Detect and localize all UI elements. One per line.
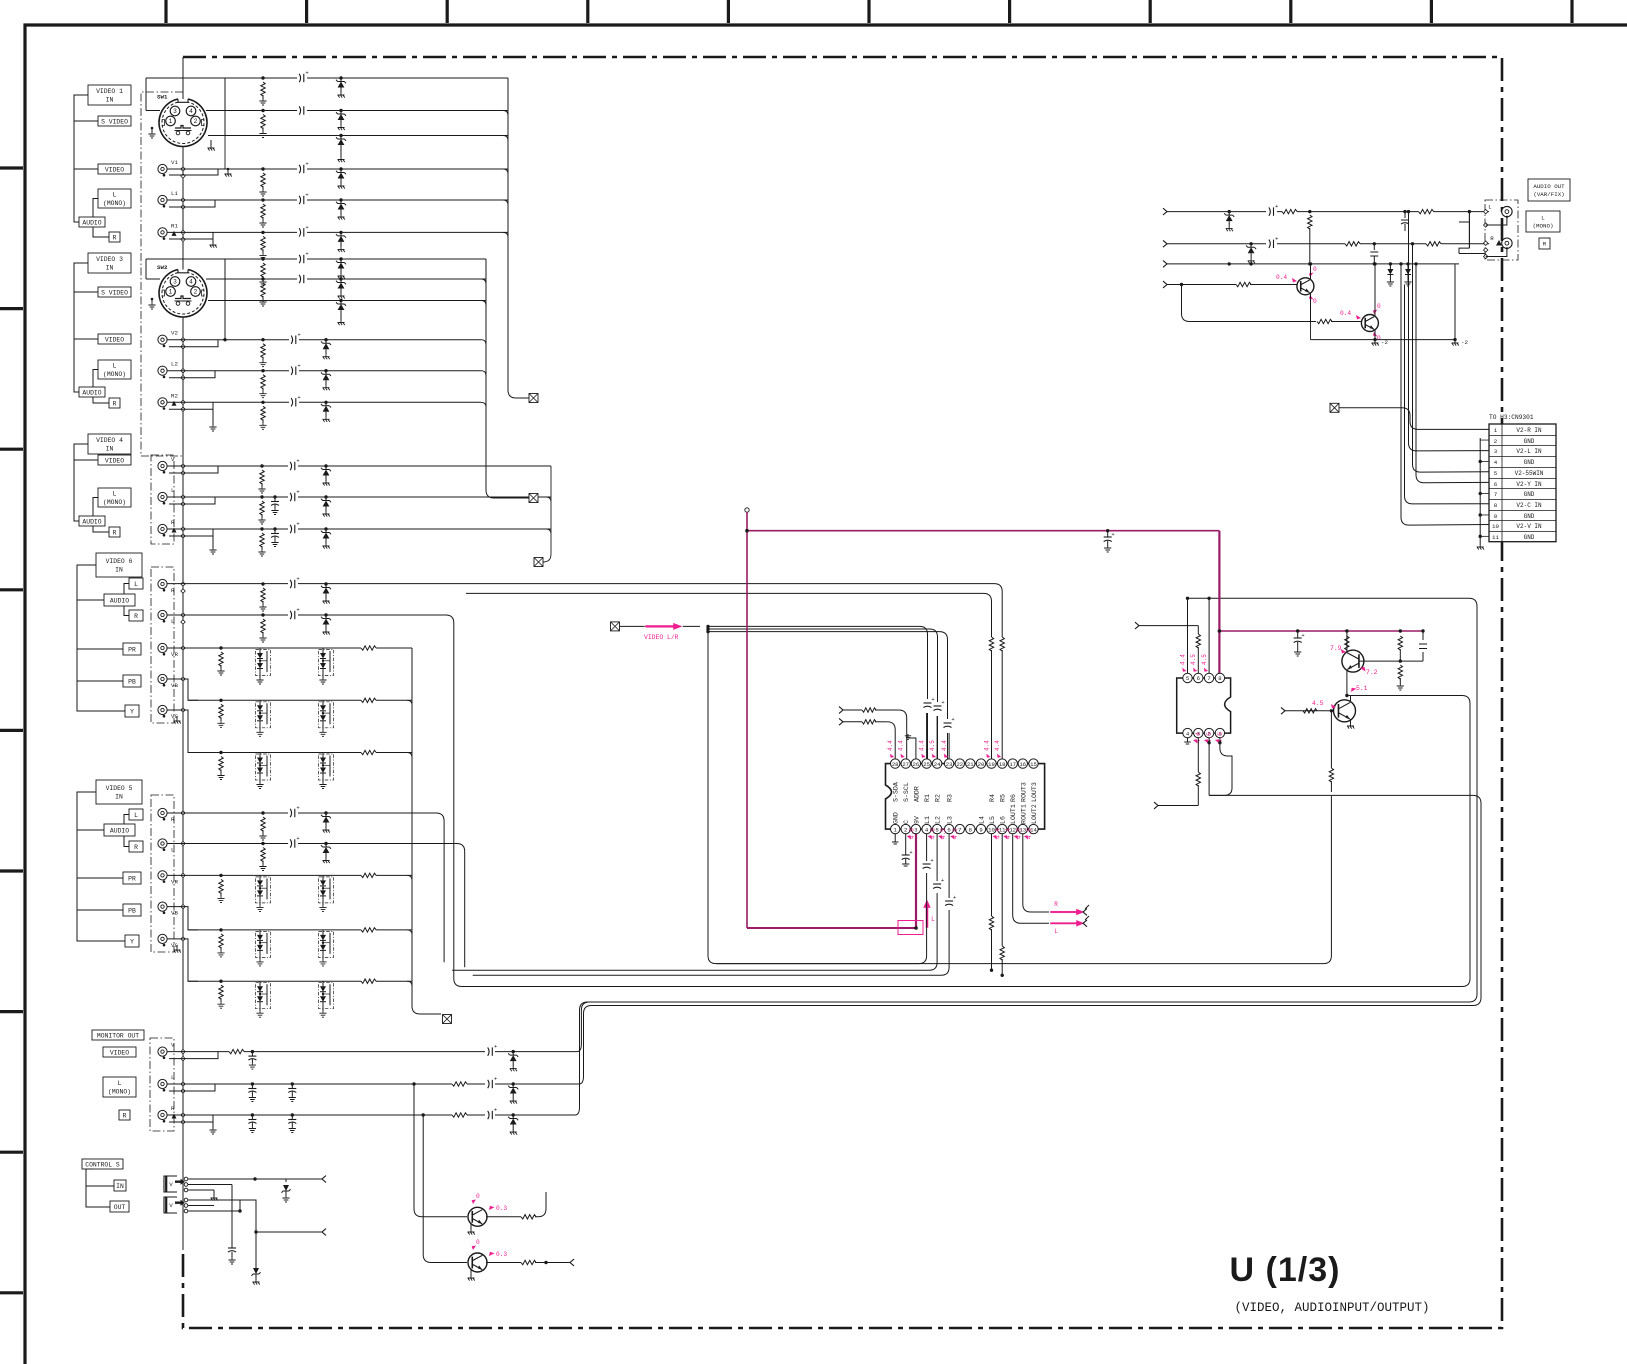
IC U1 pin 14 <box>1029 824 1038 833</box>
svg-text:R5: R5 <box>1000 794 1007 802</box>
wire L2 jack link <box>169 371 215 378</box>
label box R (VIDEO 6) <box>129 610 143 621</box>
table pin 6 V2-Y IN <box>1489 478 1556 480</box>
coupling capacitor <box>297 196 307 205</box>
gnd bus pad <box>181 205 185 209</box>
svg-text:+: + <box>296 521 299 528</box>
svg-text:IN: IN <box>116 1183 124 1190</box>
wire R2 jack link <box>169 402 213 409</box>
label box AUDIO (VIDEO 4) <box>79 516 105 526</box>
svg-text:LOUT3: LOUT3 <box>1031 782 1038 802</box>
wire QC1 out <box>486 1216 521 1218</box>
bus bundle component rows <box>412 648 441 1014</box>
shunt resistor SW2 r1 <box>261 257 264 260</box>
flag 0.4 QA1 <box>1292 278 1297 282</box>
svg-text:3: 3 <box>173 279 177 286</box>
cap R mon 2 <box>291 1113 294 1116</box>
svg-text:4.5: 4.5 <box>930 828 937 839</box>
IC U2 pin 5 <box>1183 673 1192 682</box>
magenta flags IC top <box>890 754 894 758</box>
flag 7.9 <box>1341 649 1346 653</box>
gnd -2 right <box>1453 338 1456 341</box>
wire row <box>167 401 481 403</box>
gnd VG5 <box>176 945 178 948</box>
shunt resistor <box>261 401 264 404</box>
svg-text:VIDEO: VIDEO <box>105 336 124 343</box>
coupling capacitor <box>288 525 298 534</box>
svg-text:+: + <box>296 489 299 496</box>
svg-text:+: + <box>296 576 299 583</box>
gnd VG6 <box>176 716 178 719</box>
wire row <box>167 647 412 649</box>
shunt resistor <box>261 198 264 201</box>
svg-text:4.5: 4.5 <box>909 828 916 839</box>
IC U1 pin 23 <box>944 759 953 768</box>
label box MONITOR OUT <box>92 1030 144 1040</box>
wire pin6 down <box>473 834 949 976</box>
wire trunk CONTROL S labels <box>86 1169 114 1207</box>
coupling cap L mon <box>485 1079 495 1088</box>
junction <box>223 338 226 341</box>
wire cap feed 2 <box>708 629 938 763</box>
wire row R (VIDEO 5) <box>167 813 444 962</box>
IC U1 pin 5 <box>932 824 941 833</box>
junction <box>412 1082 415 1085</box>
shunt resistor <box>219 928 222 931</box>
coupling capacitor <box>289 398 299 407</box>
wire pin12 to R arrow <box>1013 834 1049 924</box>
svg-text:22: 22 <box>956 761 963 768</box>
IC U1 pin 4 <box>922 824 931 833</box>
svg-text:MONITOR OUT: MONITOR OUT <box>97 1032 139 1039</box>
series resistor <box>361 871 376 879</box>
diode pair 2 <box>1407 264 1409 269</box>
svg-text:+: + <box>494 1107 497 1114</box>
svg-text:VIDEO: VIDEO <box>105 457 124 464</box>
svg-text:V2-Y IN: V2-Y IN <box>1516 481 1542 488</box>
svg-text:VIDEO 1: VIDEO 1 <box>96 88 123 95</box>
label box PB (VIDEO 6) <box>123 675 141 687</box>
wire V mon up <box>577 598 1477 1051</box>
svg-text:+: + <box>296 607 299 614</box>
gnd group2 <box>212 409 214 425</box>
wire audio row4 <box>1167 284 1243 286</box>
svg-text:27: 27 <box>902 761 909 768</box>
bus bundle group1 <box>508 78 529 398</box>
IC U1 pin 1 <box>891 824 900 833</box>
wire QC1 up <box>535 1192 546 1217</box>
label box R (AUDIO OUT) <box>1539 238 1550 249</box>
gnd bus pad <box>181 400 185 404</box>
wire audio R row <box>1167 243 1489 245</box>
svg-text:3: 3 <box>1494 448 1498 455</box>
gnd bus pad <box>181 582 185 586</box>
wire row L (VIDEO 5) <box>167 844 465 968</box>
magenta thick vertical to IC8 <box>1218 531 1220 676</box>
dual diode pack 1 <box>256 931 271 957</box>
label box IN (CONTROL S) <box>114 1180 126 1191</box>
svg-text:-2: -2 <box>1381 339 1388 346</box>
series resistor <box>361 696 376 704</box>
svg-text:+: + <box>494 1043 497 1050</box>
res col 1400 lower <box>1398 665 1402 679</box>
svg-text:L: L <box>1488 204 1492 211</box>
svg-text:7: 7 <box>1207 675 1210 682</box>
wire QA2 base <box>1182 285 1317 322</box>
svg-text:VIDEO 4: VIDEO 4 <box>96 437 123 444</box>
svg-text:R2: R2 <box>935 794 942 802</box>
IC U1 pin 2 <box>901 824 910 833</box>
flag 4.5 Q2 <box>1331 704 1336 708</box>
shunt resistor <box>219 874 222 877</box>
svg-text:+: + <box>909 849 912 856</box>
flag 0 QA2 bot <box>1373 332 1378 337</box>
svg-text:V: V <box>171 1042 175 1049</box>
wire Q2 base left <box>1285 710 1333 712</box>
svg-text:OUT: OUT <box>114 1204 126 1211</box>
wire bracket AUDIO L/R (VIDEO 4) <box>93 498 109 533</box>
gnd bus pad <box>181 198 185 202</box>
transistor Q2 (5.1) <box>1334 700 1356 722</box>
shunt resistor <box>260 464 263 467</box>
svg-text:5: 5 <box>1494 470 1498 477</box>
wire row <box>188 929 412 931</box>
wire trunk VIDEO 5 labels <box>77 792 125 941</box>
zener R5 <box>324 811 327 814</box>
label box L MONO (VIDEO 3) <box>98 360 131 379</box>
audio wire vert 1469 <box>1468 212 1470 249</box>
svg-text:1: 1 <box>169 118 173 125</box>
shunt resistor <box>219 980 222 983</box>
gnd bus pad <box>181 904 185 908</box>
series resistor S-SCL <box>862 720 876 724</box>
svg-text:R: R <box>171 587 175 594</box>
wire V1 jack link <box>169 169 218 175</box>
junction <box>1228 262 1231 265</box>
svg-text:PB: PB <box>128 907 136 914</box>
cap on magenta bus <box>1106 529 1109 532</box>
zener audio L <box>1228 210 1231 213</box>
purple 9V to IC pin3 <box>915 833 917 928</box>
svg-text:R: R <box>1543 241 1547 248</box>
wire QC2 right <box>535 1262 570 1264</box>
gnd bus pad <box>181 464 185 468</box>
wire L1 jack link <box>169 200 215 207</box>
label box AUDIO OUT <box>1528 179 1570 201</box>
svg-text:L: L <box>1054 928 1058 935</box>
svg-text:VB: VB <box>171 682 178 689</box>
wire row <box>167 370 481 372</box>
svg-text:4.4: 4.4 <box>994 740 1001 751</box>
gnd bus pad <box>181 1056 185 1060</box>
wire table feed pin3 <box>1409 212 1490 451</box>
svg-text:V2-C IN: V2-C IN <box>1516 502 1542 509</box>
series res to pin6 <box>1197 626 1199 634</box>
dash-dot box AUDIO OUT jacks <box>1485 200 1518 260</box>
IC U1 pin 27 <box>901 759 910 768</box>
table pin 2 GND <box>1489 435 1556 437</box>
zener L5 <box>324 842 327 845</box>
offpage connector E <box>534 558 543 567</box>
svg-text:GND: GND <box>893 812 900 824</box>
series res QA2 base <box>1317 318 1332 326</box>
wire ADDR hook <box>908 734 916 759</box>
dual diode pack 2 <box>319 983 334 1009</box>
svg-text:V: V <box>169 1202 173 1209</box>
res col 1400 <box>1399 629 1402 632</box>
dash-dot box VIDEO 6 jacks <box>151 567 174 723</box>
svg-text:+: + <box>305 224 308 231</box>
coupling capacitor <box>289 335 299 344</box>
wire row <box>188 980 412 982</box>
zener diode <box>324 401 327 404</box>
svg-text:4.5: 4.5 <box>1312 700 1324 707</box>
wire R4 jack link <box>169 529 213 536</box>
wire Q2 base down res <box>1330 711 1332 768</box>
series resistor S-SDA <box>862 708 876 712</box>
svg-text:7.2: 7.2 <box>1366 669 1378 676</box>
svg-text:4.4: 4.4 <box>941 740 948 751</box>
gnd bus pad <box>181 841 185 845</box>
zener row2 <box>339 109 342 112</box>
wire control-s out long <box>240 1200 322 1232</box>
svg-text:4.4: 4.4 <box>983 740 990 751</box>
zener diode <box>339 198 342 201</box>
shunt resistor <box>219 751 222 754</box>
magenta bus bottom <box>747 927 916 929</box>
flag 0.3 QC2 <box>489 1252 495 1256</box>
gnd QC1 <box>470 1224 472 1230</box>
svg-text:R: R <box>1054 901 1058 908</box>
svg-text:SW2: SW2 <box>157 264 168 271</box>
jack R1 <box>158 228 167 237</box>
magenta highlight box <box>898 921 923 935</box>
wire pin4 gnd <box>1187 738 1189 742</box>
svg-text:(MONO): (MONO) <box>108 1089 131 1096</box>
svg-text:1: 1 <box>1494 427 1498 434</box>
label box L MONO (MONITOR OUT) <box>103 1077 136 1097</box>
gnd bus pad <box>181 502 185 506</box>
svg-text:4.5: 4.5 <box>952 828 959 839</box>
svg-text:0: 0 <box>1313 298 1317 305</box>
svg-text:2: 2 <box>194 118 198 125</box>
svg-text:4.4: 4.4 <box>887 740 894 751</box>
wire pin5 up <box>1187 598 1189 673</box>
shunt resistor <box>219 646 222 649</box>
flag 0 QA2 top <box>1373 310 1378 315</box>
connector SW2 mini-DIN <box>159 270 207 317</box>
wire pin25 <box>926 713 928 759</box>
svg-text:VR: VR <box>171 651 178 658</box>
gnd bus pad <box>181 369 185 373</box>
junction <box>1218 741 1221 744</box>
chevron S-SCL <box>839 718 843 725</box>
wire pin24 <box>936 716 938 759</box>
series res V mon <box>229 1048 244 1056</box>
table pin 11 GND <box>1489 531 1556 533</box>
wire to pin28 <box>887 722 895 759</box>
svg-text:0.3: 0.3 <box>496 1251 507 1258</box>
IC U1 pin 19 <box>987 759 996 768</box>
bus bundle group2 <box>486 259 529 498</box>
wire table feed pin5 <box>1413 244 1490 472</box>
res audio L 2 <box>1419 208 1434 216</box>
svg-text:L: L <box>113 491 117 498</box>
wire jog <box>167 939 198 981</box>
svg-text:LOUT1: LOUT1 <box>1010 804 1017 824</box>
flag 0 QA1 top <box>1309 273 1314 278</box>
wire audio L row <box>1167 211 1489 213</box>
wire bracket AUDIO L/R (VIDEO 1) <box>93 199 109 238</box>
wire rail to audio R <box>1454 264 1456 340</box>
svg-text:4.5: 4.5 <box>1201 654 1208 665</box>
wire pin2 down <box>1208 738 1210 796</box>
chevron R out <box>1083 909 1087 916</box>
svg-text:1: 1 <box>169 289 173 296</box>
IC U1 pin 22 <box>955 759 964 768</box>
audio wire branch <box>1459 222 1469 254</box>
wire row V (MONITOR) <box>167 1051 577 1053</box>
series res L mon <box>452 1080 467 1088</box>
IC U1 pin 17 <box>1008 759 1017 768</box>
wire pin18 res <box>1000 637 1004 651</box>
jack V (MONITOR) <box>158 1047 167 1056</box>
svg-text:0: 0 <box>1377 303 1381 310</box>
IC U1 pin 20 <box>976 759 985 768</box>
svg-text:4.5: 4.5 <box>929 740 936 751</box>
label box AUDIO (VIDEO 6) <box>104 594 135 606</box>
wire VIDEO L/R route down <box>708 626 1331 963</box>
svg-text:L6: L6 <box>1000 816 1007 824</box>
chevron audio R <box>1163 240 1167 247</box>
IC U1 pin 8 <box>966 824 975 833</box>
gnd bus pad <box>181 527 185 531</box>
label box Y (VIDEO 5) <box>125 935 139 947</box>
IC U1 pin 9 <box>976 824 985 833</box>
svg-text:L: L <box>113 192 117 199</box>
wire row <box>188 752 412 754</box>
svg-text:L5: L5 <box>989 816 996 824</box>
wire row <box>188 699 412 701</box>
svg-text:+: + <box>305 251 308 258</box>
svg-text:L: L <box>171 1074 175 1081</box>
shunt res audio L <box>1308 215 1312 229</box>
wire SW2-V2 vertical <box>224 301 226 340</box>
svg-text:VIDEO L/R: VIDEO L/R <box>644 634 679 641</box>
shunt resistor row1 <box>261 76 264 79</box>
IC U1 pin 6 <box>944 824 953 833</box>
IC U1 pin 18 <box>998 759 1007 768</box>
coupling cap R6 <box>288 580 298 589</box>
wire V4 jack link <box>169 466 218 473</box>
svg-text:R3: R3 <box>947 794 954 802</box>
svg-text:+: + <box>305 70 308 77</box>
coupling capacitor <box>288 493 298 502</box>
coupling cap L6 <box>288 611 298 620</box>
magenta line 631 <box>1219 630 1422 632</box>
series res audio R <box>1345 240 1360 248</box>
wire gnd stub pin 7 <box>1480 493 1489 495</box>
chevron audio 4 <box>1163 281 1167 288</box>
wire Q1 collector up <box>1346 631 1348 653</box>
IC U2 pin 6 <box>1194 673 1203 682</box>
wire V mon jack link <box>169 1052 218 1059</box>
wire row R (VIDEO 6) <box>167 584 1002 637</box>
shunt res R6 <box>261 582 264 585</box>
wire control-s in to chevron <box>255 1178 322 1180</box>
jack V2 <box>158 335 167 344</box>
svg-text:9V: 9V <box>913 816 920 824</box>
wire row <box>167 465 551 467</box>
IC U2 pin 4 <box>1183 728 1192 737</box>
label box VIDEO 5 IN <box>96 780 142 804</box>
svg-text:R: R <box>113 529 117 536</box>
gnd bus pad <box>181 1113 185 1117</box>
wire pin11 down res <box>1001 834 1003 946</box>
svg-text:9: 9 <box>1494 513 1498 520</box>
dual diode pack 1 <box>256 702 271 728</box>
svg-text:V1: V1 <box>171 159 178 166</box>
svg-text:4.5: 4.5 <box>1190 654 1197 665</box>
ruler tick marks top <box>166 0 1572 23</box>
wire pin1 down <box>1209 738 1232 796</box>
IC U1 pin 12 <box>1008 824 1017 833</box>
wire SW1 row3 <box>225 135 508 137</box>
IC U1 pin 26 <box>911 759 920 768</box>
svg-text:+: + <box>297 362 300 369</box>
coupling capacitor <box>297 228 307 237</box>
label box Y (VIDEO 6) <box>125 705 139 717</box>
gnd bus pad <box>181 708 185 712</box>
svg-text:V2-R IN: V2-R IN <box>1516 427 1542 434</box>
dual diode pack 2 <box>319 754 334 780</box>
IC U1 pin 16 <box>1018 759 1027 768</box>
wire control-s out rows <box>188 1200 240 1212</box>
magenta bus vertical <box>746 512 748 928</box>
svg-text:15: 15 <box>1030 761 1037 768</box>
zener diode <box>339 231 342 234</box>
label box L (VIDEO 5) <box>129 809 143 820</box>
wire R1 jack link <box>169 232 213 239</box>
svg-text:S VIDEO: S VIDEO <box>101 118 128 125</box>
coupling capacitor <box>297 165 307 174</box>
wire QC2 out <box>486 1262 521 1264</box>
cap V mon <box>251 1050 254 1053</box>
offpage connector VIDEO L/R <box>611 622 620 631</box>
IC U1 body <box>886 764 1045 830</box>
flag 0 QC1 <box>472 1200 476 1205</box>
gnd bus pad <box>181 589 185 593</box>
svg-text:S-SDA: S-SDA <box>893 782 900 802</box>
svg-text:AUDIO OUT: AUDIO OUT <box>1533 183 1565 190</box>
svg-text:VIDEO 3: VIDEO 3 <box>96 256 123 263</box>
magenta bus horizontal top <box>747 530 1219 532</box>
svg-text:+: + <box>951 716 954 723</box>
jack VG (VIDEO 6) <box>158 705 167 714</box>
IC U2 pin 2 <box>1204 728 1213 737</box>
jack R (MONITOR) <box>158 1110 167 1119</box>
jack L (MONITOR) <box>158 1079 167 1088</box>
wire pin19 res <box>989 637 993 651</box>
label box VIDEO (VIDEO 3) <box>98 334 131 344</box>
svg-text:4.5: 4.5 <box>1016 828 1023 839</box>
jack R (VIDEO 6) <box>158 579 167 588</box>
gnd bus pad <box>181 620 185 624</box>
zener R6 <box>324 582 327 585</box>
transistor QC2 <box>468 1253 487 1272</box>
coupling capacitor <box>289 366 299 375</box>
label box PR (VIDEO 6) <box>123 643 141 655</box>
